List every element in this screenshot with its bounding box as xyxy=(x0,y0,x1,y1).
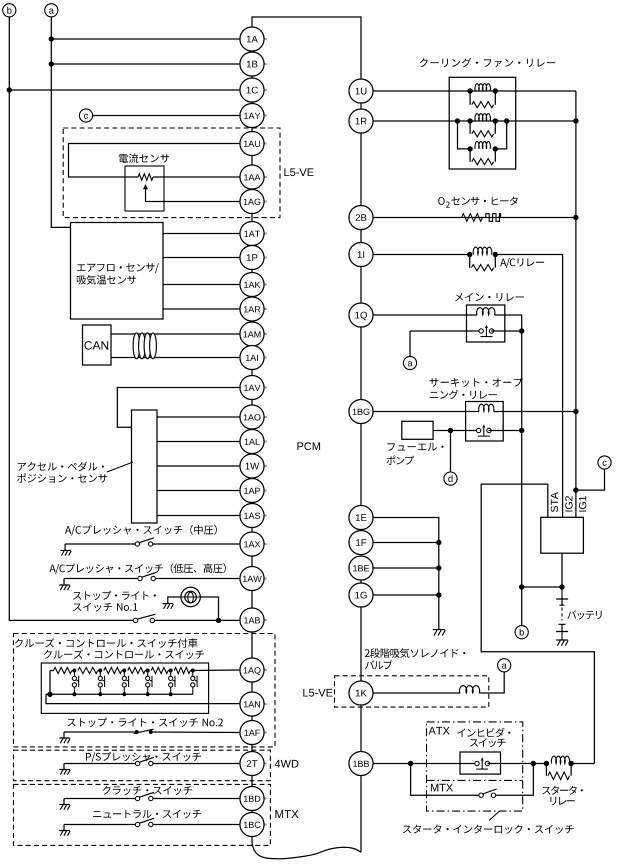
wire 1BB to inhibitor switch xyxy=(373,763,477,765)
wire 1Q to main relay coil xyxy=(373,314,477,316)
pin 1AQ xyxy=(240,658,264,682)
pin 1AX xyxy=(240,532,264,556)
wire starter relay to STA feed xyxy=(571,763,594,765)
pin 1G xyxy=(349,583,373,607)
PCM left column spine wire xyxy=(251,27,253,837)
main relay contact xyxy=(479,325,494,337)
resistor cruise 5 xyxy=(151,667,168,673)
wire to 1AG xyxy=(146,201,240,203)
pin 1AA xyxy=(240,165,264,189)
pin 1AF xyxy=(240,720,264,744)
starter relay coil xyxy=(551,756,569,763)
airflow / intake air temp sensor box xyxy=(71,223,164,320)
pin 1U xyxy=(349,79,373,103)
wire continuation curve 1BC to 1BB xyxy=(252,837,361,859)
junction c/trunk xyxy=(573,487,578,492)
label MTX xyxy=(275,810,298,818)
wire 1A top to 1U xyxy=(252,17,361,79)
wire to 1AX xyxy=(153,543,240,545)
label fuel pump line2 xyxy=(387,456,415,465)
label L5-VE 2 xyxy=(303,689,332,697)
wire 1R through relays xyxy=(373,120,507,122)
pin stub xyxy=(264,490,267,492)
label L5-VE xyxy=(284,168,313,176)
junction xyxy=(544,761,549,766)
cooling fan relay coil 2 xyxy=(475,114,490,121)
main relay coil xyxy=(477,308,495,315)
pin 1AI xyxy=(240,345,264,369)
wire solenoid to node a xyxy=(479,672,504,693)
circuit opening relay contact xyxy=(476,424,491,436)
pin stub xyxy=(264,176,267,178)
wire main relay contact to node a xyxy=(410,330,482,332)
pin 1BB xyxy=(349,751,373,775)
ground stop light switch No.2 xyxy=(59,738,70,743)
wire 1E group to ground xyxy=(373,518,439,630)
label PCM xyxy=(297,442,320,450)
starter interlock dash-dot box xyxy=(427,722,523,811)
pin 1AV xyxy=(240,375,264,399)
label circuit opening relay line2 xyxy=(430,390,497,399)
wire to 1AA xyxy=(153,176,240,178)
wire MTX branch down xyxy=(411,764,482,796)
cruise bottom bus xyxy=(46,693,193,695)
cruise chain link xyxy=(190,670,193,672)
cooling fan relay coil 3 xyxy=(475,142,490,149)
wire 1BE xyxy=(373,567,439,569)
wire COR coil to trunk xyxy=(494,411,576,413)
label IG1 xyxy=(579,496,586,511)
wire 1R to trunk xyxy=(507,120,576,122)
cooling fan relay resistor legs 3 xyxy=(470,149,495,162)
wire inhibitor to starter relay xyxy=(488,763,547,765)
junction a/1A xyxy=(49,36,54,41)
junction xyxy=(493,118,498,123)
wire to 1AQ xyxy=(193,669,240,672)
ground P/S pressure switch xyxy=(59,770,70,775)
inhibitor switch contact xyxy=(475,757,490,769)
pin stub xyxy=(264,201,267,203)
label inhibitor switch line1 xyxy=(457,728,510,738)
pin 2B xyxy=(349,205,373,229)
fuel pump box xyxy=(402,421,433,439)
cooling fan relay resistor legs 2 xyxy=(470,121,495,134)
label stop light line1 xyxy=(73,591,156,600)
MTX divider dash-dot xyxy=(427,779,523,781)
junction cruise chain xyxy=(169,669,173,673)
ground riser xyxy=(63,764,65,770)
cooling fan relay resistor 1 xyxy=(472,102,494,108)
junction MTX/starter relay xyxy=(531,761,536,766)
junction 1F xyxy=(436,540,441,545)
wire STA feed to starter relay xyxy=(481,484,594,763)
O2 sensor heater element xyxy=(486,214,501,222)
node d (fuel pump) xyxy=(444,472,457,485)
pin 1W xyxy=(240,454,264,478)
neutral switch xyxy=(135,818,154,826)
wire node b down to stop light switch No.1 xyxy=(9,17,133,621)
wire main relay coil to battery junction xyxy=(495,315,522,587)
wire MTX branch up xyxy=(496,764,534,796)
cruise chain link xyxy=(145,670,148,672)
wire 1U to trunk xyxy=(373,90,576,92)
label fuel pump line1 xyxy=(387,443,443,451)
O2 sensor heater resistor xyxy=(462,214,483,222)
junction xyxy=(504,118,509,123)
starter relay resistor legs xyxy=(546,764,571,776)
label ATX xyxy=(429,727,450,735)
label clutch switch xyxy=(103,786,193,795)
wire 1I to A/C relay xyxy=(373,254,470,256)
wire to 1P xyxy=(163,257,240,259)
A/C relay resistor legs xyxy=(470,255,496,268)
label IG2 xyxy=(565,496,572,511)
A/C pressure switch (mid) xyxy=(135,538,154,546)
wire to 1AS xyxy=(157,515,240,517)
pin 1AK xyxy=(240,272,264,296)
resistor cruise 3 xyxy=(104,667,122,673)
pin stub xyxy=(264,357,267,359)
wire 1AV to APP sensor xyxy=(117,388,240,428)
dashed box L5-VE group xyxy=(63,128,280,218)
CAN box xyxy=(83,325,112,365)
dashed box solenoid valve L5-VE xyxy=(335,676,489,707)
wire ground to neutral switch xyxy=(64,824,139,826)
label inhibitor switch line2 xyxy=(470,738,506,747)
node d drop xyxy=(450,431,452,473)
wire 1K to solenoid coil xyxy=(373,692,460,694)
label valve line2 xyxy=(365,660,392,669)
pin stub xyxy=(264,257,267,259)
label stop light switch No.2 xyxy=(67,718,223,727)
label stop light switch No.1 xyxy=(73,603,137,612)
ground clutch switch xyxy=(59,805,70,810)
label starter relay line1 xyxy=(542,786,583,795)
PCM right column spine wire xyxy=(360,79,362,852)
ground A/C pressure switch low/high xyxy=(59,585,70,590)
node a xyxy=(45,4,58,17)
cruise control push switch xyxy=(98,671,104,695)
pin stub xyxy=(264,143,267,145)
node c (right) xyxy=(598,456,611,469)
ground battery xyxy=(556,640,568,646)
pin 1K xyxy=(349,681,373,705)
pin 1Q xyxy=(349,303,373,327)
wire to 1BC xyxy=(153,824,240,826)
pin stub xyxy=(264,89,267,91)
pointer line APP sensor label xyxy=(107,462,133,472)
accelerator pedal position sensor box xyxy=(132,410,158,523)
junction battery xyxy=(559,584,564,589)
wire ground to P/S pressure switch xyxy=(64,763,139,765)
twisted pair loops on CAN wires xyxy=(133,333,156,359)
pin stub xyxy=(264,115,267,117)
wire A/C relay to IG2 xyxy=(495,255,562,518)
wire 1G xyxy=(373,594,439,596)
wire to 1AB xyxy=(155,619,240,621)
node a (solenoid) xyxy=(498,659,511,672)
pin 1BE xyxy=(349,556,373,580)
junction xyxy=(493,252,498,257)
wire ground to A/C pressure switch low/high xyxy=(64,578,138,580)
pin stub xyxy=(264,732,267,734)
wire COR contact to vertical xyxy=(489,430,522,432)
wire ground to stop light switch No.2 xyxy=(64,731,135,733)
junction b drop xyxy=(519,584,524,589)
junction cruise bus xyxy=(169,692,173,696)
pin 1AO xyxy=(240,405,264,429)
wire to 1AW xyxy=(155,578,239,580)
pin stub xyxy=(264,308,267,310)
starter interlock switch (MTX) xyxy=(479,789,497,797)
wire battery junction xyxy=(522,586,562,588)
pin stub xyxy=(264,578,267,580)
resistor cruise 2 xyxy=(78,667,98,673)
pin 1AN xyxy=(240,692,264,716)
label starter interlock switch xyxy=(403,825,574,834)
starter relay resistor xyxy=(548,772,570,780)
cruise control switch box xyxy=(41,663,208,713)
battery xyxy=(556,587,568,640)
node a (main relay) xyxy=(403,356,416,369)
node c xyxy=(79,109,92,122)
junction 1BB/MTX branch xyxy=(408,761,413,766)
wire node a down to airflow sensor xyxy=(51,17,70,228)
wire 1BG to COR coil xyxy=(373,411,479,413)
ground riser xyxy=(63,579,65,586)
junction lamp/1AB xyxy=(216,618,221,623)
wire fuel pump to COR contact xyxy=(433,430,478,432)
junction xyxy=(568,761,573,766)
wire to 1AF xyxy=(153,731,240,734)
ground stop light lamp xyxy=(163,604,174,609)
junction a/1B xyxy=(49,61,54,66)
far right trunk wire (IG1) xyxy=(575,91,577,517)
ground riser xyxy=(63,799,65,805)
pin stub xyxy=(264,619,267,621)
pin 1BC xyxy=(240,812,264,836)
cooling fan relay box xyxy=(449,77,516,169)
junction cruise chain xyxy=(146,669,150,673)
cruise control push switch xyxy=(191,671,197,695)
pin 1AY xyxy=(240,103,264,127)
junction xyxy=(467,146,472,151)
wire 1F xyxy=(373,542,439,544)
pin 1AU xyxy=(240,131,264,155)
junction cruise chain xyxy=(72,669,76,673)
junction fuel pump/node d xyxy=(448,428,453,433)
junction xyxy=(493,146,498,151)
current sensor box xyxy=(125,166,164,211)
junction cruise bus xyxy=(98,692,102,696)
wire to 1AK xyxy=(163,284,240,286)
pin 1R xyxy=(349,109,373,133)
cooling fan relay resistor 3 xyxy=(472,159,494,165)
junction main relay xyxy=(519,328,524,333)
pin stub xyxy=(264,515,267,517)
wire to 1C xyxy=(9,89,240,91)
wire ground to clutch switch xyxy=(64,798,139,800)
pin stub xyxy=(264,543,267,545)
label accelerator pedal line1 xyxy=(18,462,104,472)
junction cruise bus xyxy=(72,692,76,696)
pointer line starter interlock label xyxy=(489,811,500,820)
pin 1AP xyxy=(240,478,264,502)
pin 1AR xyxy=(240,297,264,321)
solenoid valve coil xyxy=(459,686,479,693)
A/C relay resistor xyxy=(471,265,493,271)
junction 1BG/trunk xyxy=(573,409,578,414)
inhibitor switch box xyxy=(460,752,501,774)
pin stub xyxy=(264,387,267,389)
label MTX interlock xyxy=(431,784,453,792)
label intake air temp sensor xyxy=(77,275,136,285)
pin stub xyxy=(264,763,267,765)
wire to 1W xyxy=(157,465,240,467)
cooling fan relay coil 1 xyxy=(475,84,490,91)
junction cruise chain xyxy=(98,669,102,673)
label current sensor xyxy=(119,154,169,164)
cruise chain link xyxy=(72,670,75,672)
wire ignition block to battery xyxy=(561,553,563,587)
A/C pressure switch (low, high) xyxy=(138,572,157,580)
pin 1AG xyxy=(240,189,264,213)
label battery xyxy=(567,610,601,619)
pin 1AM xyxy=(240,322,264,346)
cooling fan relay resistor legs 1 xyxy=(470,91,495,105)
junction cruise bus left xyxy=(47,692,52,697)
pin 1BG xyxy=(349,399,373,423)
dashed box cruise-control-equipped vehicles xyxy=(14,634,276,747)
ground riser xyxy=(63,825,65,831)
wire to 1AI xyxy=(111,357,240,359)
label A/C pressure switch low high xyxy=(49,563,226,574)
label 2-stage intake solenoid line1 xyxy=(365,648,466,658)
junction xyxy=(493,88,498,93)
wire to 1BD xyxy=(153,798,240,800)
junction xyxy=(467,118,472,123)
resistor cruise 4 xyxy=(128,667,145,673)
circuit opening relay coil xyxy=(479,404,494,411)
arrow of current sensor xyxy=(143,184,148,202)
cruise chain link xyxy=(168,670,171,672)
pin stub xyxy=(264,465,267,467)
cruise control push switch xyxy=(72,671,78,695)
pin stub xyxy=(264,233,267,235)
pin stub xyxy=(264,416,267,418)
wire to 1AT xyxy=(163,233,240,235)
cruise control push switch xyxy=(169,671,175,695)
ground neutral switch xyxy=(59,831,70,836)
pin stub xyxy=(264,63,267,65)
wire to 1AP xyxy=(157,490,240,492)
cooling fan relay resistor 2 xyxy=(472,131,494,137)
wire ground to A/C pressure switch mid xyxy=(65,543,135,545)
cruise control push switch xyxy=(122,671,128,695)
cruise chain start xyxy=(50,670,54,672)
pin 1P xyxy=(240,245,264,269)
node b drop xyxy=(521,587,523,626)
node b xyxy=(3,4,16,17)
ground 1E group xyxy=(433,630,446,636)
junction 2B/trunk xyxy=(573,215,578,220)
wire lamp to ground xyxy=(168,597,181,604)
label O2 sensor heater xyxy=(438,197,445,205)
wire 1AU loop to current sensor xyxy=(69,144,240,178)
cruise left drop xyxy=(49,671,51,695)
label starter relay line2 xyxy=(551,797,575,805)
label cruise control equipped xyxy=(15,638,198,648)
pin 1AT xyxy=(240,221,264,245)
pin 1AW xyxy=(240,566,264,590)
wire node c to trunk xyxy=(576,469,605,490)
pin 1I xyxy=(349,242,373,266)
junction cruise chain xyxy=(122,669,126,673)
cooling fan relay 3 left leg xyxy=(458,121,471,149)
wire contact to vertical xyxy=(491,330,522,332)
wire 2B to trunk xyxy=(373,217,576,219)
wire node c to 1AY xyxy=(93,115,240,117)
wire to 1AL xyxy=(157,441,240,443)
pin stub xyxy=(264,333,267,335)
A/C relay coil xyxy=(473,247,492,254)
label cruise control switch xyxy=(44,650,204,660)
wire to 1B xyxy=(51,63,240,65)
pin stub xyxy=(264,824,267,826)
pin 1BD xyxy=(240,786,264,810)
label A/C relay xyxy=(500,258,544,268)
cruise chain link xyxy=(122,670,125,672)
label main relay xyxy=(455,293,524,302)
junction 1BE xyxy=(436,565,441,570)
label 4WD xyxy=(275,760,299,768)
label STA xyxy=(551,492,558,512)
junction xyxy=(467,88,472,93)
stop light switch No.2 (closed) xyxy=(134,729,154,734)
pin 1E xyxy=(349,505,373,529)
ground riser xyxy=(64,544,66,550)
pin 1AS xyxy=(240,503,264,527)
junction xyxy=(467,252,472,257)
label position sensor line2 xyxy=(17,473,107,482)
label A/C pressure switch mid xyxy=(65,525,217,536)
pin 1F xyxy=(349,530,373,554)
junction 1R/trunk xyxy=(573,118,578,123)
cruise chain link xyxy=(98,670,101,672)
label cooling fan relay xyxy=(420,58,555,68)
label P/S pressure switch xyxy=(86,752,201,762)
wire to 2T xyxy=(153,763,240,765)
circuit opening relay box xyxy=(466,402,504,442)
wire lamp to 1AB wire xyxy=(200,597,218,620)
junction b/1C xyxy=(7,87,12,92)
main relay box xyxy=(467,305,505,342)
resistor cruise 1 xyxy=(54,667,72,673)
label CAN xyxy=(84,341,108,350)
pin stub xyxy=(264,38,267,40)
label airflow sensor line1 xyxy=(77,263,159,273)
dashed box MTX xyxy=(14,784,271,845)
stop light bulb xyxy=(181,587,200,606)
junction cruise bus xyxy=(122,692,126,696)
pin 1B xyxy=(240,52,264,76)
junction xyxy=(455,118,460,123)
pin stub xyxy=(264,798,267,800)
pin 1A xyxy=(240,27,264,51)
wire to 1A xyxy=(51,38,240,40)
pin stub xyxy=(264,669,267,671)
node b (battery) xyxy=(515,626,528,639)
